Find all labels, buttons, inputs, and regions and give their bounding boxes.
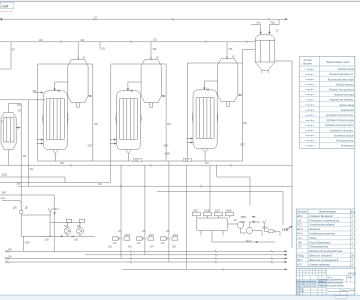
- svg-text:рП: рП: [297, 219, 301, 222]
- circulation loop rect 3: [187, 63, 242, 161]
- reactor AB2 bottom outlet: [126, 150, 132, 161]
- svg-text:302В: 302В: [2, 175, 8, 177]
- pump suction pipes: [50, 223, 80, 228]
- reactor AB1 shell: [43, 91, 67, 150]
- svg-text:НВ: НВ: [298, 241, 302, 244]
- condenser small top links: [251, 19, 279, 24]
- rack junction dots: [54, 250, 186, 252]
- valve box 207: [80, 219, 85, 222]
- funnel EM1: [48, 208, 52, 216]
- discharge line: [40, 234, 95, 236]
- condenser KT1: [243, 19, 292, 248]
- drum legs: [201, 231, 223, 236]
- svg-text:202Г: 202Г: [240, 145, 246, 147]
- layout tab: [0, 2, 13, 8]
- pipe column K1 to reactor top: [55, 82, 68, 90]
- arrow into reactor AB2 top: [127, 89, 129, 91]
- title block main dividers: [296, 268, 355, 295]
- valve cluster 2: [137, 237, 154, 240]
- reactor AB2 tube bundle: [120, 99, 138, 140]
- arrow into reactor AB3 top: [204, 88, 206, 90]
- pipe: second header line: [0, 41, 255, 43]
- drop x168.9: [168, 161, 170, 237]
- svg-text:Кубовый остаток пара: Кубовый остаток пара: [327, 119, 355, 122]
- discharge arrow: [61, 236, 63, 238]
- svg-text:Кол: Кол: [351, 210, 356, 213]
- svg-text:2024: 2024: [173, 235, 179, 237]
- svg-text:202Г: 202Г: [88, 146, 94, 148]
- drop x186: [185, 165, 187, 269]
- drop x210: [209, 165, 211, 212]
- svg-text:ЕМ-Т: ЕМ-Т: [246, 241, 252, 243]
- top window divider line: [0, 1, 360, 2]
- top header ticks: [93, 18, 270, 21]
- pump H1 internals: [65, 229, 70, 234]
- arrow on 242 line: [256, 241, 258, 243]
- reactor AB2 shell: [117, 91, 141, 150]
- svg-text:лuff: лuff: [0, 3, 9, 8]
- far-left packed column: [1, 104, 21, 166]
- arrows into condenser top: [260, 32, 270, 34]
- svg-text:2028: 2028: [125, 235, 131, 237]
- svg-text:Конденсат: Конденсат: [341, 109, 354, 112]
- feed arrows into column tops: [77, 56, 227, 59]
- arrow into left column side: [17, 127, 22, 129]
- arrow into column K2 right side: [162, 95, 166, 97]
- right small valve box: [264, 227, 280, 236]
- svg-text:Жирный газ пара: Жирный газ пара: [333, 94, 354, 97]
- long down pipe x292: [291, 61, 293, 248]
- feed labels with arrows: [252, 216, 256, 222]
- svg-text:КЛ: КЛ: [234, 220, 237, 222]
- svg-text:2027: 2027: [149, 235, 155, 237]
- svg-text:Вентиль запорный: Вентиль запорный: [310, 255, 333, 258]
- rack mid ticks: [130, 250, 273, 271]
- svg-text:205В: 205В: [165, 154, 171, 156]
- svg-text:Жирный раствор эт.: Жирный раствор эт.: [328, 73, 354, 76]
- circulation loop rect 2: [111, 64, 166, 161]
- second header ticks: [60, 41, 248, 44]
- column K1 body: [68, 60, 88, 103]
- scattered pipe labels: [1, 17, 280, 258]
- svg-text:АВ: АВ: [206, 89, 210, 92]
- reactor AB1 side bulges: [43, 113, 69, 124]
- sheet right frame line: [354, 56, 356, 295]
- reactor inlet arrows: [110, 140, 115, 144]
- column bottom pipe: [8, 150, 10, 166]
- drop x110: [0, 161, 111, 183]
- cluster to rack drops: [121, 240, 169, 262]
- pipe y177 right step: [217, 165, 250, 205]
- condenser outlet right: [275, 60, 292, 62]
- reactor AB1 bottom outlet: [53, 150, 59, 161]
- drain funnel right: [263, 221, 267, 228]
- feed drop to column K1: [77, 42, 79, 60]
- svg-text:Запорно-регулирующая арм.: Запорно-регулирующая арм.: [309, 250, 343, 253]
- condenser left feed from group3: [243, 50, 256, 64]
- svg-text:Обознач.: Обознач.: [297, 210, 308, 213]
- svg-text:Кубовый остаток смеси: Кубовый остаток смеси: [325, 124, 354, 127]
- receiver drum: [197, 218, 228, 231]
- svg-text:305В: 305В: [241, 217, 247, 219]
- vac pump circle 1: [237, 222, 243, 228]
- svg-text:304Г: 304Г: [241, 222, 247, 224]
- svg-text:Жирный раствор (пар): Жирный раствор (пар): [326, 78, 354, 81]
- column K2 body: [141, 60, 161, 103]
- pipe y177 left: [0, 177, 65, 183]
- pink guide dash under tab: [0, 10, 13, 12]
- bottom-center valve clusters: [113, 237, 178, 262]
- pipe column K3 to reactor top: [204, 81, 217, 89]
- pump H2: [77, 228, 84, 235]
- svg-text:НВ: НВ: [282, 227, 288, 232]
- svg-text:Емкость: Емкость: [310, 228, 321, 231]
- sump tank: [21, 215, 50, 236]
- svg-text:Жирный газ конденс.: Жирный газ конденс.: [329, 99, 355, 102]
- svg-text:Подогрев и конденсатор: Подогрев и конденсатор: [310, 219, 340, 222]
- svg-text:обознач.: обознач.: [303, 62, 313, 65]
- svg-text:Клапан задвижка: Клапан задвижка: [310, 263, 331, 266]
- arrow into column K3 right side: [238, 94, 242, 96]
- svg-text:Наименование сред: Наименование сред: [326, 61, 350, 64]
- svg-text:Масса: Масса: [347, 277, 353, 279]
- rack right arrows: [285, 251, 287, 271]
- GROUP 1: [37, 60, 93, 161]
- svg-text:Смесь газов: Смесь газов: [340, 104, 355, 107]
- pipe column K2 to reactor top: [128, 82, 141, 90]
- svg-text:ЕМ-1: ЕМ-1: [297, 228, 304, 231]
- izm list header shaded row: [296, 280, 326, 283]
- top header left end circle: [0, 18, 2, 20]
- GROUP 2: [110, 60, 166, 161]
- kip drop: [23, 236, 25, 251]
- svg-text:Н-1: Н-1: [298, 237, 303, 240]
- svg-text:КТ2: КТ2: [297, 224, 302, 227]
- reactor AB3 tube bundle: [196, 98, 214, 139]
- reactor AB2 side bulges: [116, 113, 142, 124]
- instrument boxes row: [193, 212, 201, 216]
- pipe y186 long: [18, 185, 292, 187]
- NV arrow: [288, 226, 292, 228]
- arrow into reactor AB1 top: [54, 89, 56, 91]
- svg-text:Кубовый остаток проц.: Кубовый остаток проц.: [326, 114, 354, 117]
- svg-text:304Г: 304Г: [2, 193, 8, 195]
- condenser tubes: [255, 41, 275, 63]
- svg-text:Вентиль регулирующий: Вентиль регулирующий: [310, 259, 339, 262]
- inlet arrow reactor AB1 upper: [33, 92, 43, 93]
- svg-text:202Г: 202Г: [215, 210, 221, 212]
- svg-text:ВР-Т: ВР-Т: [297, 259, 303, 262]
- svg-text:Холодильник водяной: Холодильник водяной: [309, 224, 336, 227]
- column K3 bottom stub: [226, 102, 229, 107]
- svg-text:ЗЛ(а1): ЗЛ(а1): [297, 255, 305, 258]
- reactor AB3 bottom outlet: [202, 149, 208, 161]
- svg-text:Жидкая среда: Жидкая среда: [337, 68, 355, 71]
- bottom outside-sheet band: [0, 296, 360, 300]
- right part dividers: [326, 275, 355, 295]
- label leader at x100: [99, 42, 101, 50]
- title block top fine grid: [296, 268, 326, 275]
- reactor inlet arrows: [186, 139, 191, 143]
- svg-text:Подп.: Подп.: [311, 280, 317, 283]
- svg-text:Насос Вакуумный: Насос Вакуумный: [310, 241, 331, 244]
- svg-text:Конденсат: Конденсат: [341, 145, 354, 148]
- pipe: top header line: [3, 18, 287, 20]
- svg-text:Аппарат Выпарной: Аппарат Выпарной: [309, 215, 334, 218]
- sheet bottom frame line: [0, 294, 360, 296]
- mid-band long pipes: [0, 100, 292, 269]
- svg-text:Насос: Насос: [310, 237, 318, 240]
- drop x21: [20, 104, 22, 212]
- rack left end ticks: [5, 250, 8, 263]
- description text: [318, 278, 344, 287]
- legend table: [300, 56, 355, 148]
- pipe y161 gap segments: [93, 160, 188, 162]
- seal pot outlet: [20, 214, 22, 215]
- svg-text:АВ: АВ: [130, 90, 134, 93]
- svg-text:Листов: Листов: [347, 290, 355, 292]
- svg-text:ЕМ-1: ЕМ-1: [54, 209, 60, 211]
- title block: [296, 268, 356, 295]
- svg-text:моноэтилен-гликолей: моноэтилен-гликолей: [319, 281, 344, 284]
- drop x28: [27, 100, 29, 186]
- svg-text:КР 02: КР 02: [348, 271, 356, 275]
- rack line 1: [5, 250, 287, 252]
- svg-text:П-1: П-1: [298, 246, 303, 249]
- svg-text:КО-н: КО-н: [297, 233, 303, 236]
- svg-text:Холодный рассол: Холодный рассол: [333, 134, 355, 137]
- valve on discharge: [72, 235, 74, 237]
- ticks on mid pipes: [70, 164, 232, 188]
- svg-text:Лит.: Лит.: [326, 277, 332, 279]
- rack line 2: [85, 254, 287, 256]
- svg-text:26: 26: [350, 255, 354, 258]
- valve cluster 3: [161, 237, 178, 240]
- svg-text:200Г: 200Г: [193, 210, 199, 212]
- feed drop to column K3: [226, 42, 228, 60]
- bottom-right cluster: [193, 212, 276, 243]
- svg-text:Холодный теплонос.: Холодный теплонос.: [329, 129, 354, 132]
- pipe y195 left: [0, 195, 54, 251]
- cluster pipes: [228, 222, 263, 236]
- column K3 body: [218, 59, 238, 102]
- svg-text:Жирный газ процесса: Жирный газ процесса: [328, 89, 355, 92]
- pump H1: [64, 228, 71, 235]
- svg-text:Технологическая схема: Технологическая схема: [318, 286, 344, 288]
- svg-text:Теплоноситель: Теплоноситель: [336, 140, 355, 143]
- feed drop to column K2: [150, 42, 152, 60]
- svg-text:Конденсатоотводчик: Конденсатоотводчик: [310, 233, 337, 236]
- box-to-drum pipes: [197, 216, 230, 218]
- reactor AB1 tube bundle: [46, 99, 64, 140]
- model tab trapezoid under title block: [334, 296, 348, 299]
- bottom-left equipment: [2, 200, 95, 251]
- packing rect: [3, 117, 14, 142]
- svg-text:Петров: Петров: [303, 286, 310, 288]
- condenser cone bottom: [255, 62, 275, 73]
- valve cluster 1: [113, 237, 130, 240]
- svg-text:Подогреватель: Подогреватель: [310, 246, 329, 249]
- drop to left column area: [0, 42, 11, 69]
- svg-text:АВ-1: АВ-1: [296, 215, 303, 218]
- boxed label 202 g2: [134, 158, 141, 161]
- svg-text:Мог: Мог: [257, 23, 261, 25]
- rack line 4: [5, 261, 287, 263]
- svg-text:Утв.: Утв.: [297, 293, 302, 295]
- svg-text:АВ: АВ: [57, 90, 61, 93]
- arrow into column K1 right side: [89, 95, 93, 97]
- svg-text:Наименование: Наименование: [319, 210, 337, 213]
- rack line 3: [5, 257, 287, 259]
- svg-text:м-во: м-во: [1, 198, 7, 200]
- tank corner junction dot: [49, 236, 51, 238]
- svg-text:202Г: 202Г: [164, 146, 170, 148]
- top header right arrow: [285, 18, 287, 20]
- drop x121: [120, 165, 122, 237]
- vac pump circle 2: [247, 228, 253, 234]
- column top pipe: [9, 104, 22, 113]
- rack line 5: [122, 268, 287, 270]
- svg-text:Жидкие (смеси): Жидкие (смеси): [335, 83, 354, 86]
- boxed label 202 g3: [184, 158, 191, 161]
- svg-text:КИП: КИП: [25, 243, 30, 245]
- svg-text:Лист: Лист: [340, 290, 346, 292]
- svg-text:ДМ: ДМ: [13, 208, 17, 210]
- svg-text:204В: 204В: [226, 210, 232, 212]
- svg-text:ЗЛ(а): ЗЛ(а): [262, 228, 268, 230]
- pipe y165 long: [0, 164, 292, 166]
- column K1 bottom stub: [77, 103, 80, 108]
- pipe y191.5 right: [157, 192, 283, 226]
- pump H2 internals: [78, 229, 83, 234]
- reactor AB3 side bulges: [192, 112, 218, 123]
- seal loop pipe: [2, 200, 21, 210]
- svg-text:РоВ: РоВ: [271, 23, 276, 25]
- reactor inlet arrows: [37, 140, 42, 144]
- drop x144.9: [144, 165, 146, 237]
- svg-text:КЗ-Т: КЗ-Т: [297, 263, 303, 266]
- spec table: [296, 209, 356, 267]
- horizontal y100 left: [0, 99, 45, 101]
- GROUP 3: [186, 59, 242, 161]
- pipe rack: [5, 250, 287, 271]
- condenser feed pipes: [261, 25, 270, 35]
- drum bottom line: [212, 231, 275, 243]
- valve box 206: [67, 219, 72, 222]
- seal pot circle: [19, 210, 23, 214]
- reactor AB3 shell: [193, 90, 217, 149]
- svg-text:ДП: ДП: [25, 208, 29, 210]
- column K2 bottom stub: [150, 103, 153, 108]
- svg-text:202В: 202В: [204, 210, 210, 212]
- circulation loop rect 1: [38, 64, 93, 161]
